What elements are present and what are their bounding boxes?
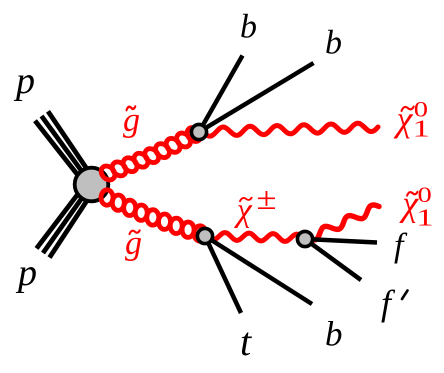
wire proton beam upper (3 converging lines) [48,111,96,181]
interaction blob (pp collision vertex) [75,168,109,202]
neutralino wavy line lower [308,205,379,240]
vertex lower-left (g~ decay to chargino) [197,228,212,243]
gluino g~ upper coil [98,163,117,182]
fermion line to b (lower) [205,236,312,304]
svg-text:0: 0 [418,182,432,207]
vertex upper (g~ decay) [191,124,206,139]
fermion line to f' [305,239,361,280]
svg-text:b: b [325,25,342,62]
svg-text:b: b [240,8,257,45]
vertex lower-right (chargino decay) [297,231,312,246]
svg-text:1: 1 [416,205,433,231]
fermion line to b (upper right) [199,63,314,132]
fermion line to f [305,239,377,243]
fermion line to b (upper left) [199,56,243,133]
fermion line to t [205,236,241,313]
svg-text:p: p [13,60,35,102]
svg-text:p: p [15,252,37,294]
gluino g~ lower coil [101,190,113,206]
svg-text:t: t [240,319,252,364]
svg-text:1: 1 [413,116,430,142]
svg-text:χ: χ [394,99,414,139]
neutralino wavy line upper [203,123,378,136]
svg-text:±: ± [257,180,277,216]
svg-text:b: b [325,314,343,353]
chargino wavy line [207,233,303,242]
wire proton beam lower (3 converging lines) [37,182,88,249]
